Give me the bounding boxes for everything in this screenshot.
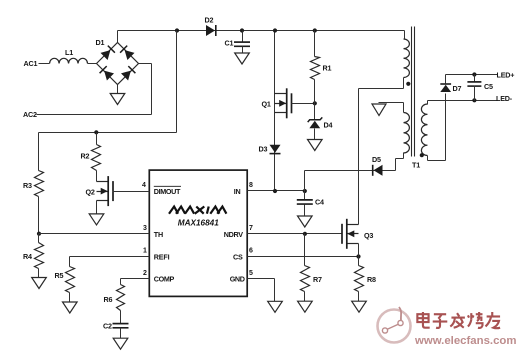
svg-text:C2: C2: [103, 322, 112, 331]
svg-text:C4: C4: [315, 198, 324, 207]
svg-text:8: 8: [249, 182, 253, 189]
svg-text:R6: R6: [104, 295, 113, 304]
svg-text:Q2: Q2: [86, 188, 95, 197]
svg-text:R7: R7: [313, 275, 322, 284]
svg-text:GND: GND: [230, 275, 245, 284]
svg-text:LED+: LED+: [497, 71, 515, 80]
svg-text:L1: L1: [65, 48, 73, 57]
svg-text:REFI: REFI: [154, 253, 170, 262]
svg-text:D3: D3: [259, 145, 268, 154]
svg-text:Q3: Q3: [364, 231, 373, 240]
svg-text:C5: C5: [484, 82, 493, 91]
svg-text:3: 3: [143, 225, 147, 232]
svg-text:1: 1: [143, 248, 147, 255]
svg-text:R3: R3: [23, 181, 32, 190]
svg-text:4: 4: [142, 182, 146, 189]
svg-text:T1: T1: [412, 161, 420, 170]
svg-text:6: 6: [249, 248, 253, 255]
svg-text:LED-: LED-: [496, 94, 513, 103]
svg-text:MAX16841: MAX16841: [178, 219, 219, 228]
svg-text:NDRV: NDRV: [224, 230, 243, 239]
svg-text:Q1: Q1: [262, 100, 271, 109]
svg-text:IN: IN: [234, 187, 241, 196]
svg-text:R1: R1: [323, 64, 332, 73]
svg-text:TH: TH: [154, 230, 163, 239]
svg-text:R8: R8: [367, 275, 376, 284]
svg-text:7: 7: [249, 225, 253, 232]
svg-text:COMP: COMP: [154, 275, 175, 284]
svg-text:D5: D5: [372, 155, 381, 164]
svg-text:R5: R5: [55, 271, 64, 280]
svg-text:5: 5: [249, 270, 253, 277]
svg-text:AC2: AC2: [23, 110, 37, 119]
svg-text:D2: D2: [205, 16, 214, 25]
svg-text:CS: CS: [233, 253, 243, 262]
svg-text:2: 2: [143, 270, 147, 277]
svg-text:C1: C1: [225, 39, 234, 48]
svg-text:D7: D7: [453, 84, 462, 93]
svg-text:R2: R2: [81, 152, 90, 161]
svg-text:DIMOUT: DIMOUT: [154, 187, 181, 196]
svg-text:D1: D1: [96, 38, 105, 47]
svg-text:D4: D4: [324, 121, 333, 130]
svg-text:www.elecfans.com: www.elecfans.com: [414, 335, 517, 347]
svg-text:R4: R4: [23, 252, 32, 261]
svg-text:AC1: AC1: [24, 59, 38, 68]
